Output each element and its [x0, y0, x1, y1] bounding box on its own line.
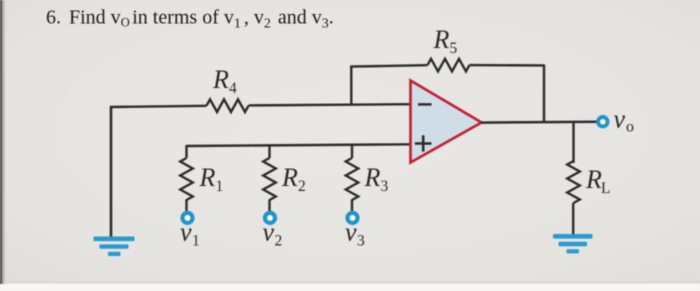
- op-amp U1: [411, 81, 482, 163]
- wire: feedback riser: [350, 66, 352, 105]
- label R1: [199, 163, 224, 195]
- resistor R5: [428, 59, 470, 72]
- wire: feedback top right segment: [470, 64, 545, 67]
- ground (right, below RL): [553, 234, 593, 253]
- wire: output: [481, 120, 598, 123]
- svg-text:R: R: [585, 165, 602, 194]
- wire: minus rail from R4 to op-amp: [249, 104, 411, 105]
- label v3: [345, 218, 365, 250]
- svg-text:L: L: [601, 180, 610, 197]
- terminal v1: [183, 213, 193, 223]
- svg-text:v: v: [263, 218, 275, 247]
- resistor R2 (with stubs): [263, 146, 276, 212]
- svg-text:6.Find vO in terms of v1, v2 a: 6.Find vO in terms of v1, v2 and v3.: [46, 7, 334, 32]
- svg-text:1: 1: [216, 178, 224, 195]
- wire: left vertical (ground leg): [110, 107, 113, 238]
- op-amp non-inverting input marker: [415, 135, 432, 151]
- label RL: [585, 165, 610, 197]
- svg-text:R: R: [364, 163, 381, 192]
- label R5: [433, 25, 458, 57]
- wire: RL branch from output rail: [572, 122, 574, 163]
- svg-text:R: R: [199, 163, 216, 192]
- svg-text:2: 2: [298, 178, 306, 195]
- wire: feedback dropper to output: [543, 65, 545, 123]
- resistor R1 (with stubs): [180, 145, 193, 212]
- terminal v2: [265, 213, 275, 223]
- label R3: [364, 163, 389, 195]
- wire: feedback top left segment: [350, 65, 428, 66]
- label v2: [263, 218, 283, 250]
- label v1: [180, 218, 200, 250]
- svg-text:R: R: [212, 65, 229, 94]
- resistor R3 (with stubs): [346, 145, 359, 211]
- svg-text:4: 4: [229, 80, 237, 97]
- label R4: [212, 65, 237, 97]
- svg-text:R: R: [433, 25, 450, 54]
- svg-text:1: 1: [192, 233, 200, 250]
- svg-text:3: 3: [381, 178, 389, 195]
- wire: plus rail: [187, 144, 411, 146]
- svg-text:5: 5: [450, 40, 458, 57]
- terminal v3: [348, 213, 358, 223]
- resistor RL (with bottom stub): [567, 161, 580, 235]
- op-amp inverting input marker: [418, 103, 432, 106]
- svg-text:R: R: [281, 163, 298, 192]
- label R2: [281, 163, 306, 195]
- wire: top-left horizontal to R4: [110, 106, 207, 107]
- terminal vo: [598, 117, 607, 126]
- ground (left): [94, 237, 135, 257]
- svg-text:o: o: [626, 119, 634, 136]
- svg-text:3: 3: [357, 233, 365, 250]
- label vo: [614, 105, 635, 136]
- resistor R4: [207, 99, 249, 112]
- svg-text:v: v: [180, 218, 192, 247]
- svg-text:v: v: [614, 105, 626, 134]
- svg-text:2: 2: [275, 233, 283, 250]
- svg-text:v: v: [345, 218, 357, 247]
